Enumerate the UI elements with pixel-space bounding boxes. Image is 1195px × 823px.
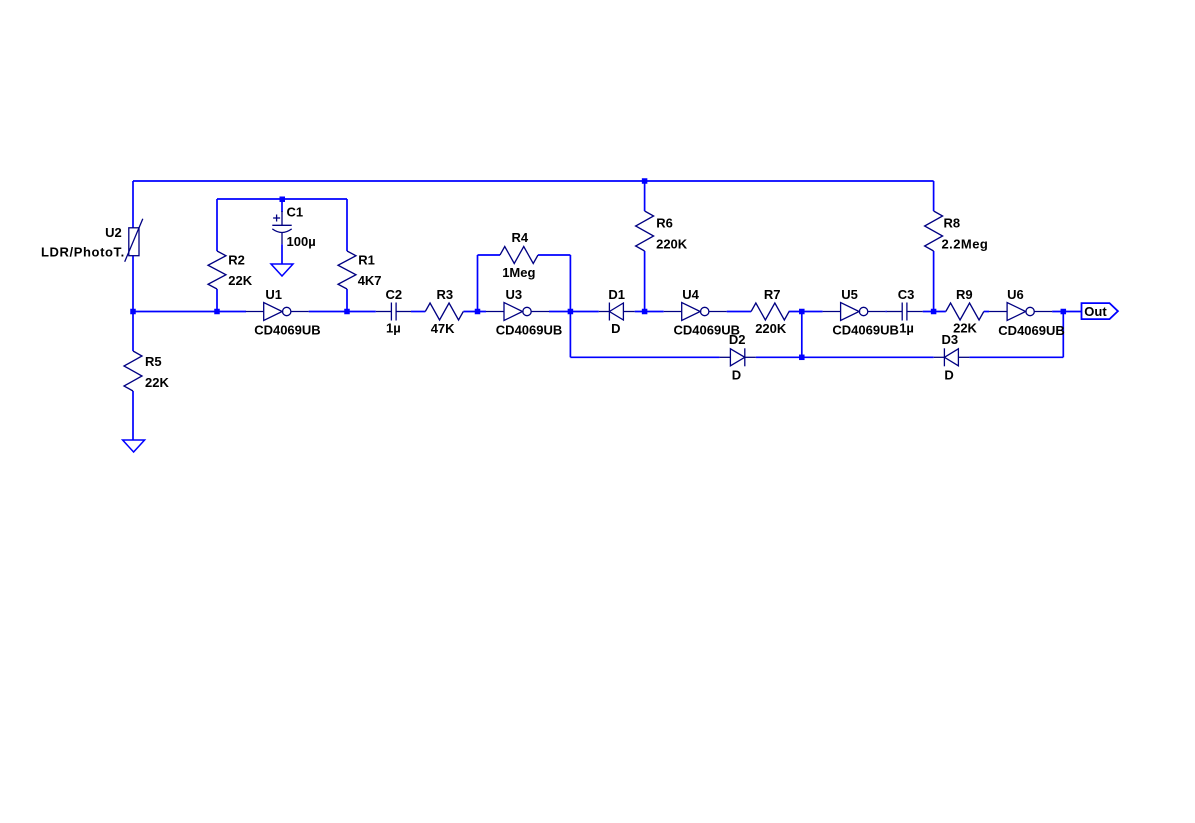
junction main at R4 left: [475, 309, 481, 315]
wire R6 top stub: [644, 181, 646, 211]
node Out (output flag): [1082, 303, 1118, 319]
wire R2 bottom stub: [216, 289, 218, 312]
resistor R5: [124, 351, 142, 391]
label R4: [502, 230, 535, 280]
svg-text:U4: U4: [682, 287, 699, 302]
junction top rail R6: [642, 178, 648, 184]
svg-text:R1: R1: [358, 252, 375, 267]
svg-text:CD4069UB: CD4069UB: [832, 323, 898, 338]
svg-text:R4: R4: [512, 230, 529, 245]
wire R4 top right: [538, 254, 570, 256]
svg-text:C2: C2: [386, 287, 403, 302]
svg-text:220K: 220K: [656, 236, 688, 251]
capacitor C3: [887, 303, 923, 321]
label D3: [942, 332, 959, 382]
wire below U2 to main node: [132, 256, 134, 312]
label D1: [608, 287, 625, 336]
wire R4 top left: [478, 254, 501, 256]
svg-text:D: D: [944, 367, 953, 382]
junction main at R1: [344, 309, 350, 315]
svg-text:U2: U2: [105, 225, 122, 240]
svg-text:R3: R3: [437, 287, 454, 302]
wire lower line left: [570, 356, 719, 358]
svg-text:22K: 22K: [228, 273, 252, 288]
junction main at R4 right: [568, 309, 574, 315]
inverter U3 CD4069UB: [486, 303, 549, 321]
svg-text:D: D: [732, 367, 741, 382]
svg-text:U1: U1: [265, 287, 282, 302]
wire R4 left riser: [477, 255, 479, 312]
svg-text:R7: R7: [764, 287, 781, 302]
wire output drop: [1062, 312, 1064, 358]
diode D2: [720, 348, 756, 366]
wire main line left: [133, 311, 246, 313]
svg-text:D2: D2: [729, 332, 746, 347]
svg-text:4K7: 4K7: [358, 273, 382, 288]
wire drop below R7 node: [801, 312, 803, 358]
wire R5 top stub: [132, 312, 134, 352]
junction C1 top: [280, 197, 286, 203]
wire R4 right riser: [569, 255, 571, 312]
label R8: [942, 215, 989, 251]
resistor R3: [425, 303, 463, 320]
label U4: [674, 287, 740, 338]
resistor R8: [925, 211, 943, 251]
wire C1 bottom to ground: [281, 244, 283, 264]
svg-text:1Meg: 1Meg: [502, 265, 535, 280]
svg-text:47K: 47K: [431, 321, 455, 336]
svg-text:LDR/PhotoT.: LDR/PhotoT.: [41, 245, 125, 260]
wire U5 out to C3: [886, 311, 887, 313]
junction main at R2: [214, 309, 220, 315]
wire D2 to lower node: [756, 356, 802, 358]
svg-text:U5: U5: [841, 287, 858, 302]
capacitor C1: [272, 211, 291, 244]
wire left drop above U2: [132, 181, 134, 228]
resistor R2: [208, 251, 226, 289]
svg-text:CD4069UB: CD4069UB: [998, 323, 1064, 338]
resistor R4: [500, 247, 538, 264]
svg-text:U3: U3: [506, 287, 523, 302]
wire R9 to U6: [984, 311, 989, 313]
svg-text:2.2Meg: 2.2Meg: [942, 236, 989, 251]
svg-text:R6: R6: [656, 215, 673, 230]
wire R1 top stub: [346, 199, 348, 251]
label U3: [496, 287, 562, 338]
label C3: [898, 287, 915, 336]
label R6: [656, 215, 688, 251]
label R3: [431, 287, 455, 336]
ground under C1: [271, 264, 293, 276]
wire U1 out to C2: [309, 311, 376, 313]
label R5: [145, 354, 169, 390]
wire R1 bottom stub: [346, 289, 348, 312]
svg-text:R8: R8: [944, 215, 961, 230]
wire R5 bottom to ground: [132, 391, 134, 440]
wire D1 to U4: [635, 311, 664, 313]
wire U4 out to R7: [727, 311, 751, 313]
svg-text:R2: R2: [228, 252, 245, 267]
svg-text:R5: R5: [145, 354, 162, 369]
wire U6 out to Out flag: [1052, 311, 1081, 313]
svg-text:1µ: 1µ: [386, 321, 401, 336]
label U2: [105, 225, 122, 240]
svg-text:1µ: 1µ: [899, 321, 914, 336]
wire R7 to U5: [789, 311, 823, 313]
label C2: [386, 287, 403, 336]
capacitor C2: [376, 303, 411, 321]
diode D1: [599, 303, 635, 321]
label R7: [755, 287, 787, 336]
junction main at U2: [130, 309, 136, 315]
label U1: [254, 287, 320, 338]
label U6: [998, 287, 1064, 338]
wire top rail: [133, 180, 934, 182]
svg-text:D: D: [611, 321, 620, 336]
junction main at R7: [799, 309, 805, 315]
resistor U2 (LDR/PhotoT.): [125, 219, 143, 262]
label U5: [832, 287, 898, 338]
label R2: [228, 252, 252, 288]
resistor R9: [946, 303, 984, 320]
wire C3 to R9: [923, 311, 946, 313]
inverter U4 CD4069UB: [664, 303, 727, 321]
resistor R6: [636, 211, 654, 251]
junction lower line: [799, 355, 805, 361]
svg-text:220K: 220K: [755, 321, 787, 336]
svg-text:C1: C1: [287, 204, 304, 219]
inverter U1 CD4069UB: [246, 303, 309, 321]
svg-text:CD4069UB: CD4069UB: [496, 323, 562, 338]
wire D3 to output drop: [969, 356, 1063, 358]
label C1: [287, 204, 316, 249]
wire R8 bottom stub: [933, 251, 935, 312]
label R9: [953, 287, 977, 336]
wire drop to lower line at R4 node: [569, 312, 571, 358]
resistor R1: [338, 251, 356, 289]
svg-text:D1: D1: [608, 287, 625, 302]
inverter U6 CD4069UB: [989, 303, 1052, 321]
label D2: [729, 332, 746, 382]
svg-text:U6: U6: [1007, 287, 1024, 302]
wire R6 bottom stub: [644, 251, 646, 312]
svg-text:100µ: 100µ: [287, 234, 316, 249]
wire U3 out to D1: [549, 311, 599, 313]
wire C1 top stub: [281, 199, 283, 212]
junction main at output: [1061, 309, 1067, 315]
svg-text:CD4069UB: CD4069UB: [254, 323, 320, 338]
wire lower node to D3: [802, 356, 934, 358]
wire R8 top stub: [933, 181, 935, 211]
wire R3 to node: [463, 311, 486, 313]
wire R2 top stub: [216, 199, 218, 251]
wire sub rail R2-R1: [217, 198, 347, 200]
inverter U5 CD4069UB: [823, 303, 886, 321]
svg-text:D3: D3: [942, 332, 959, 347]
svg-text:R9: R9: [956, 287, 973, 302]
label R1: [358, 252, 382, 288]
junction main at R8: [931, 309, 937, 315]
resistor R7: [751, 303, 789, 320]
ground under R5: [123, 440, 145, 452]
wire C2 to R3: [411, 311, 425, 313]
svg-text:22K: 22K: [145, 375, 169, 390]
diode D3: [934, 348, 970, 366]
label LDR/PhotoT.: [41, 245, 125, 260]
junction main at R6: [642, 309, 648, 315]
svg-text:Out: Out: [1084, 304, 1107, 319]
svg-text:C3: C3: [898, 287, 915, 302]
